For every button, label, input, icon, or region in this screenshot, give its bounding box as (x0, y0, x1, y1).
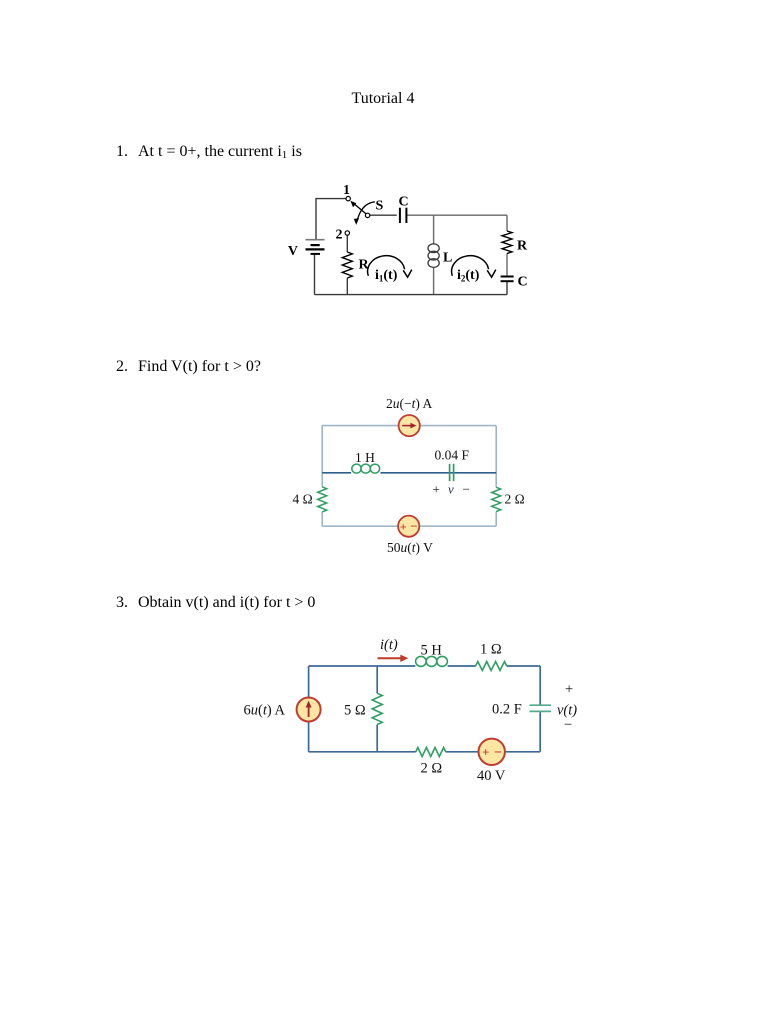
svg-text:2 Ω: 2 Ω (505, 492, 525, 507)
wire bottom (315, 294, 508, 296)
svg-text:Find V(t) for t > 0?: Find V(t) for t > 0? (138, 358, 261, 375)
svg-text:40 V: 40 V (477, 768, 506, 784)
voltage source 40 V (479, 739, 505, 765)
svg-text:−: − (463, 482, 470, 497)
wire middle vertical upper (433, 215, 435, 243)
resistor 5 ohm (372, 693, 382, 724)
switch S pivot (365, 213, 369, 217)
switch blade with arrow to node 1 (350, 201, 366, 214)
capacitor C (series, top) (400, 208, 407, 223)
svg-text:L: L (443, 251, 452, 266)
mesh arrow i2 (452, 256, 496, 277)
current arrow i(t) (378, 655, 409, 662)
svg-text:1 Ω: 1 Ω (480, 642, 502, 658)
svg-text:Obtain v(t) and i(t) for t > 0: Obtain v(t) and i(t) for t > 0 (138, 594, 315, 611)
svg-text:C: C (398, 195, 408, 210)
svg-text:+: + (433, 482, 440, 497)
wire capacitor to top-right corner (406, 214, 507, 216)
svg-text:50u(t) V: 50u(t) V (387, 540, 433, 555)
current source 2u(-t) A (399, 415, 420, 436)
resistor R lower-left (342, 252, 352, 278)
wire top (309, 665, 541, 667)
svg-text:S: S (376, 199, 384, 214)
svg-text:i(t): i(t) (380, 637, 398, 653)
svg-text:v: v (448, 482, 454, 497)
svg-text:C: C (518, 275, 528, 290)
svg-text:At t = 0+, the current i1 is: At t = 0+, the current i1 is (138, 143, 302, 161)
wire middle vertical lower (433, 268, 435, 295)
voltage source 50u(t) V (398, 516, 419, 537)
wire right C to bottom (506, 281, 508, 294)
resistor 1 ohm (476, 662, 507, 671)
svg-text:i2(t): i2(t) (457, 268, 480, 284)
mesh arrow i1 (368, 256, 412, 277)
wire right rail (495, 426, 497, 527)
svg-text:R: R (517, 239, 528, 254)
svg-text:4 Ω: 4 Ω (293, 492, 313, 507)
svg-text:+: + (400, 520, 407, 534)
middle wire (322, 472, 496, 474)
capacitor C right (501, 277, 514, 282)
svg-text:2u(−t) A: 2u(−t) A (386, 396, 433, 411)
wire bottom (322, 525, 496, 527)
inductor 1 H (352, 464, 380, 473)
svg-text:−: − (494, 746, 502, 761)
svg-text:+: + (565, 682, 573, 698)
wire middle branch (376, 666, 378, 752)
current source 6u(t) A (297, 698, 321, 722)
svg-text:1.: 1. (116, 143, 128, 160)
resistor 2 ohm (492, 487, 501, 511)
wire right R to C (506, 254, 508, 277)
wire node2 to R (346, 235, 348, 252)
inductor 5 H (416, 656, 448, 666)
svg-text:1: 1 (343, 183, 350, 198)
svg-text:+: + (482, 745, 489, 760)
wire top-left (316, 199, 346, 240)
node 2 terminal (345, 231, 349, 235)
svg-text:2.: 2. (116, 358, 128, 375)
svg-text:1 H: 1 H (355, 450, 375, 465)
wire right rail (539, 666, 541, 752)
inductor L (428, 244, 439, 268)
capacitor 0.04 F (450, 464, 454, 481)
svg-text:2: 2 (336, 228, 343, 243)
svg-text:i1(t): i1(t) (375, 268, 398, 284)
svg-text:2 Ω: 2 Ω (421, 761, 443, 777)
svg-text:0.04 F: 0.04 F (435, 448, 470, 463)
battery V (306, 240, 325, 254)
svg-text:0.2 F: 0.2 F (492, 702, 522, 718)
svg-text:−: − (564, 717, 572, 733)
svg-text:Tutorial 4: Tutorial 4 (352, 90, 415, 107)
svg-text:V: V (288, 244, 298, 259)
switch motion arc (354, 202, 375, 225)
wire pivot to capacitor (370, 214, 397, 216)
svg-text:3.: 3. (116, 594, 128, 611)
resistor 2 ohm bottom (416, 748, 446, 757)
wire battery to bottom (314, 254, 316, 295)
svg-text:5 Ω: 5 Ω (344, 703, 366, 719)
resistor 4 ohm (318, 487, 327, 512)
svg-text:5 H: 5 H (421, 643, 443, 659)
svg-text:−: − (410, 519, 417, 534)
wire left rail (308, 666, 310, 752)
svg-text:6u(t) A: 6u(t) A (244, 703, 286, 719)
node 1 terminal (346, 196, 350, 200)
wire left rail (321, 426, 323, 527)
wire bottom (309, 751, 541, 753)
wire right vertical upper (506, 215, 508, 231)
wire top (322, 425, 496, 427)
wire R to bottom (346, 278, 348, 295)
capacitor 0.2 F (530, 705, 552, 711)
resistor R right (502, 231, 512, 254)
outer loop wires (322, 426, 496, 527)
